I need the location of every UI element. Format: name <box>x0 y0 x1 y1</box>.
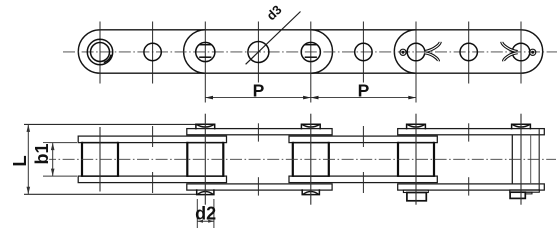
pin 4 centerline <box>415 114 417 205</box>
washer top pin 5 <box>512 124 531 129</box>
leader line d3 <box>246 12 301 65</box>
pin 2 circle <box>196 42 215 61</box>
roller at pin 1 edges <box>81 142 83 177</box>
pin 5 centerline <box>520 114 522 205</box>
washer top pin 4 <box>407 124 426 129</box>
centerline roller A <box>152 22 154 84</box>
centerline pin 5 <box>520 22 522 84</box>
roller at pin 3 edges <box>292 142 294 177</box>
wire plate bottom edge <box>100 72 521 74</box>
roller at pin 4 faces <box>398 142 434 144</box>
pin centerlines (long, joints) <box>100 114 521 205</box>
tick A bottom <box>152 172 154 193</box>
inner plate strip B top <box>289 136 437 143</box>
pin 4 circle <box>407 43 425 61</box>
pin 5 circle <box>512 43 530 61</box>
pin 5 cotter hole end <box>530 49 536 55</box>
pin 2 chord top <box>199 44 211 46</box>
inner plate strip A bottom <box>78 176 226 183</box>
pin 3 circle <box>301 42 320 61</box>
left end cap arc link plate <box>78 30 100 73</box>
cotter fixing plates bottom pin 5 <box>510 190 540 199</box>
centerline roller D <box>468 22 470 84</box>
dimension line P <box>205 96 416 100</box>
roller C circle <box>355 43 372 60</box>
end pin body right edge <box>530 135 532 184</box>
washer top pin 2 <box>196 124 215 129</box>
roller at pin 4 edges <box>397 142 399 177</box>
plate cap arc at pin 3 <box>311 30 333 73</box>
pin 3 chord top <box>305 44 317 46</box>
pin 4 split pin prongs <box>424 42 440 61</box>
bushing tick centerlines <box>153 123 469 195</box>
roller at pin 2 faces <box>187 142 223 144</box>
centerline roller C <box>362 22 364 83</box>
outer plate line top <box>24 123 197 125</box>
washer top pin 3 <box>301 124 320 129</box>
washer bottom pin 3 <box>302 189 319 194</box>
centerline pin 2 / extension P <box>204 22 206 103</box>
pin 3 centerline <box>310 114 312 205</box>
pin 1 inner circle <box>91 43 110 62</box>
tick A top <box>152 126 154 147</box>
pin 1 outer circle <box>87 39 112 64</box>
cotter fixing plates bottom pin 4 <box>403 190 428 201</box>
washer bottom pin 2 <box>197 189 214 194</box>
tick B top <box>257 123 259 141</box>
plate cap arc at pin 4 <box>394 30 416 73</box>
centerline horizontal bottom view <box>44 158 556 160</box>
pin 1 centerline <box>99 127 101 192</box>
centerline roller B <box>257 22 259 83</box>
tick D bottom <box>468 177 470 195</box>
roller D circle <box>460 43 477 60</box>
outer plate strip A top <box>187 129 332 135</box>
centerline pin 3 / extension P <box>310 22 312 103</box>
tick B bottom <box>257 177 259 195</box>
tick C top <box>362 126 364 147</box>
plate cap arc at pin 2 <box>184 30 206 73</box>
inner plate strip A top <box>78 136 226 143</box>
roller A circle <box>144 43 161 60</box>
roller at pin 3 faces <box>293 142 329 144</box>
inner plate strip B bottom <box>289 176 437 183</box>
centerline pin 4 / extension P <box>415 22 417 103</box>
pin 2 centerline <box>204 114 206 205</box>
roller at pin 1 faces <box>82 142 118 144</box>
tick D top <box>468 123 470 141</box>
roller B circle (d3) <box>248 42 269 63</box>
svg-text:P: P <box>358 81 370 101</box>
end pin body left edge <box>511 135 513 184</box>
svg-text:P: P <box>253 81 265 101</box>
b1 extension lines <box>43 143 77 177</box>
dimension b1 <box>51 143 55 177</box>
d2 extension lines <box>197 199 214 228</box>
wire plate top edge <box>100 29 521 31</box>
washers with pin heads (top side) <box>196 124 531 194</box>
outer plate strip B top <box>398 129 545 135</box>
vertical centerlines top view <box>100 22 521 103</box>
outer plate strip B bottom <box>398 184 545 190</box>
label b1 halo <box>36 143 49 167</box>
pin 2 chord bottom <box>199 56 211 58</box>
pin 3 chord bottom <box>305 56 317 58</box>
outer plate strip A bottom <box>187 184 332 190</box>
rollers side view <box>82 142 434 177</box>
svg-text:d2: d2 <box>195 203 216 223</box>
centerline horizontal top view <box>63 51 557 53</box>
right end cap arc link plate <box>521 30 543 73</box>
svg-text:b1: b1 <box>32 143 52 164</box>
dimension d2 <box>197 220 214 223</box>
tick C bottom <box>362 172 364 193</box>
pin 5 split pin prongs <box>502 42 518 61</box>
chain end plate edge <box>538 129 540 190</box>
pin 1 press-fit arc <box>104 55 111 63</box>
centerline pin 1 <box>99 22 101 84</box>
outer plate line bottom <box>24 193 197 195</box>
roller at pin 2 edges <box>186 142 188 177</box>
svg-text:L: L <box>9 155 30 166</box>
pin 4 cotter hole end <box>400 49 406 55</box>
dimension L <box>27 124 31 194</box>
